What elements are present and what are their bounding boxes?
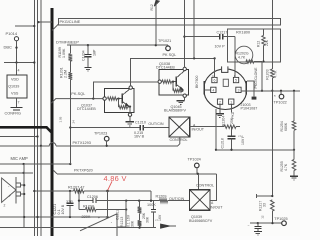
connector J1003 left chord bbox=[203, 81, 205, 95]
wire tp1023 stem bbox=[106, 141, 108, 146]
arrow R12 head bbox=[154, 0, 159, 6]
wire riser x139 t bbox=[139, 201, 141, 207]
capacitor C1204 plate1 bbox=[84, 54, 91, 56]
junction q1037 emitter bbox=[129, 105, 131, 107]
wire pk-sql tap bbox=[51, 99, 103, 104]
wire x70 down bbox=[69, 80, 71, 165]
junction dtmf c1204 bbox=[87, 44, 89, 46]
capacitor C1212 lead dn bbox=[152, 212, 154, 228]
svg-text:16V: 16V bbox=[158, 214, 162, 221]
ground Q1037 bar2 bbox=[128, 123, 133, 125]
wire pk sql net bbox=[131, 58, 215, 86]
ground C1204 bar2 bbox=[86, 68, 90, 70]
pad P1014 bbox=[14, 37, 18, 41]
transistor Q1038 emitter bbox=[176, 85, 183, 90]
wire sw2 inout bbox=[210, 174, 217, 201]
capacitor C1210 plate2 bbox=[142, 125, 144, 131]
capacitor C1222 lead bbox=[257, 223, 259, 226]
arrow R12 tick bbox=[156, 1, 159, 4]
svg-text:BU4066BCFV: BU4066BCFV bbox=[189, 219, 213, 223]
svg-text:1.09K: 1.09K bbox=[62, 48, 66, 58]
junction out2 bbox=[23, 193, 25, 195]
resistor R1217 bbox=[271, 200, 275, 211]
wire signal y191 bbox=[34, 190, 73, 192]
wire c1217 out bbox=[223, 36, 235, 38]
pin Q1037 base bbox=[103, 97, 106, 100]
svg-text:4.86 V: 4.86 V bbox=[104, 174, 127, 183]
junction c1222 bbox=[257, 222, 259, 224]
junction DBC bbox=[15, 46, 17, 48]
junction rail79 bbox=[78, 190, 80, 192]
wire pin6 stem bbox=[214, 58, 216, 77]
svg-text:18P: 18P bbox=[92, 49, 96, 56]
ground Q1038 bar3 bbox=[180, 103, 181, 105]
wire sw1 control bbox=[178, 137, 180, 146]
junction x151 y200 bbox=[150, 200, 152, 202]
svg-text:PKTX1293: PKTX1293 bbox=[73, 141, 91, 145]
net flag PKG/CLINE box bbox=[59, 18, 281, 25]
testpoint TP1023 bbox=[104, 136, 109, 141]
junction x216 y150 bbox=[215, 149, 217, 151]
ground C1222 bar2 bbox=[256, 232, 260, 234]
junction rail x139 bbox=[138, 226, 140, 228]
junction c1206 x126 bbox=[125, 199, 127, 201]
wire q1038 r2 down bbox=[172, 81, 174, 90]
wire x216 from connector bbox=[215, 109, 217, 150]
wire riser x139 m bbox=[139, 213, 141, 220]
wire r1255 top lead bbox=[293, 150, 295, 160]
wire x272 top bbox=[271, 0, 273, 69]
capacitor C1221 plate1 bbox=[67, 202, 74, 204]
junction pk sql pin6 bbox=[213, 57, 215, 59]
capacitor C1218 plate1 bbox=[227, 135, 235, 137]
svg-text:DTMF/BEEP: DTMF/BEEP bbox=[56, 39, 79, 44]
wire tp1024 stem bbox=[196, 168, 198, 174]
annotation pointer line bbox=[108, 181, 112, 190]
testpoint TP1025 bbox=[282, 221, 287, 226]
wire sw1 out bbox=[190, 126, 224, 128]
svg-text:C1217: C1217 bbox=[217, 31, 228, 35]
svg-text:CONTROL: CONTROL bbox=[170, 138, 188, 142]
wire arrow R12 up bbox=[155, 5, 157, 46]
ground connector bar1 bbox=[216, 113, 224, 115]
svg-text:1: 1 bbox=[230, 100, 232, 104]
capacitor C1204 lead dn bbox=[87, 57, 89, 68]
ground Q1037 bar3 bbox=[129, 125, 130, 127]
wire tp1021 stem bbox=[167, 44, 169, 47]
transistor Q1037 bar bbox=[121, 94, 123, 104]
op-amp U2 triangle bbox=[80, 214, 117, 236]
wire x194 down bbox=[193, 0, 195, 58]
pin Q1038 emitter bbox=[183, 94, 186, 97]
svg-text:4: 4 bbox=[212, 89, 214, 93]
wire r1208 row2 bbox=[96, 209, 126, 211]
wire q1037 emitter down bbox=[129, 107, 131, 113]
analog switch Q1039 X2 bbox=[190, 190, 211, 211]
wire thick harness y127 bbox=[0, 127, 52, 132]
wire q1037 r2 join bbox=[128, 106, 131, 108]
pin pad out2 bbox=[16, 192, 20, 196]
connector pin 6 bbox=[212, 77, 217, 82]
junction c1206 l bbox=[78, 199, 80, 201]
op-amp U1 triangle bbox=[2, 178, 16, 202]
wire pin7 bbox=[16, 98, 18, 107]
resistor R1206 inner bbox=[262, 36, 265, 46]
wire mic2 bbox=[0, 172, 33, 174]
wire c1217 in bbox=[184, 36, 219, 38]
svg-text:4.7K: 4.7K bbox=[274, 70, 278, 78]
capacitor C1212 lead bbox=[152, 201, 154, 210]
connector J1003 right flat erase bbox=[246, 81, 249, 95]
junction x34 y191 bbox=[33, 190, 35, 192]
capacitor C1221 lead up bbox=[69, 191, 71, 203]
junction tp1022 bbox=[280, 90, 282, 92]
capacitor C1222 plate1 bbox=[254, 225, 261, 227]
ferrite bead shield bbox=[252, 97, 257, 100]
arrow net line bbox=[170, 225, 176, 227]
resistor Q1038 R1 bbox=[162, 80, 172, 83]
ground R1255 bar3 bbox=[293, 179, 294, 181]
op-amp U2 input line bbox=[117, 226, 127, 228]
wire node P1014 top bbox=[15, 25, 34, 27]
pin Q1037 collector bbox=[129, 86, 132, 89]
svg-text:~: ~ bbox=[248, 224, 250, 228]
svg-text:3: 3 bbox=[237, 89, 239, 93]
junction r1254 top bbox=[293, 90, 295, 92]
wire vertical V2 x37.5 bbox=[37, 0, 39, 236]
connector pin 5 bbox=[233, 77, 238, 82]
wire pktx1293 bbox=[56, 145, 178, 147]
junction x38 y22 bbox=[37, 21, 39, 23]
wire q1038 base in bbox=[94, 82, 159, 99]
transistor Q1037 collector bbox=[122, 89, 130, 96]
junction y136 bbox=[36, 135, 38, 137]
junction y217 d bbox=[106, 216, 108, 218]
wire pkg clone bbox=[261, 62, 263, 91]
wire r1255 bot lead bbox=[293, 171, 295, 176]
ground R1255 bar2 bbox=[292, 177, 297, 179]
junction q1038 base bbox=[172, 81, 174, 83]
svg-text:2: 2 bbox=[4, 204, 6, 208]
svg-text:CONTROL: CONTROL bbox=[196, 183, 214, 187]
resistor R1209 bbox=[160, 199, 168, 203]
resistor R1213 bbox=[138, 207, 142, 213]
wire y136 bbox=[0, 136, 38, 138]
svg-text:C1204: C1204 bbox=[81, 50, 85, 61]
wire r1254 top lead bbox=[293, 91, 295, 121]
wire vertical V1 x34 bbox=[33, 0, 35, 236]
wire mic1 bbox=[0, 163, 70, 165]
wire pktxp620 tap bbox=[53, 170, 57, 174]
capacitor C1218 plate2 bbox=[227, 138, 235, 140]
ground C1204 bar1 bbox=[84, 66, 91, 68]
svg-text:33: 33 bbox=[262, 203, 266, 207]
svg-text:TP1023: TP1023 bbox=[94, 132, 107, 136]
svg-text:PK-SQL: PK-SQL bbox=[71, 92, 85, 96]
junction r1217 bot bbox=[271, 222, 273, 224]
svg-text:10V B: 10V B bbox=[61, 204, 65, 214]
analog switch Q1039 box bbox=[190, 190, 211, 211]
resistor R1255 bbox=[292, 160, 296, 171]
transistor Q1038 box bbox=[159, 69, 189, 95]
connector pin 3 bbox=[236, 87, 241, 92]
capacitor C1212 plate2 bbox=[151, 211, 156, 213]
wire riser x139 b bbox=[139, 226, 141, 227]
wire y127 in bbox=[70, 127, 140, 129]
transistor Q1037 emitter bbox=[122, 102, 128, 106]
wire thick bus x52 bbox=[51, 8, 54, 236]
transistor Q1037 arrow bbox=[125, 103, 129, 106]
svg-text:TP1024: TP1024 bbox=[188, 158, 201, 162]
connector pin 1 bbox=[229, 99, 234, 104]
wire y217 bbox=[0, 216, 108, 218]
wire pin5 stem bbox=[234, 37, 236, 78]
svg-text:100K: 100K bbox=[147, 203, 156, 207]
connector J1003 keyway notch bbox=[222, 66, 228, 72]
wire r1206 lead2 bbox=[263, 46, 265, 62]
svg-text:R1213: R1213 bbox=[120, 217, 124, 227]
wire y191 mid bbox=[84, 190, 151, 192]
wire y150 bbox=[216, 149, 294, 151]
analog switch Q1039 X1 bbox=[190, 190, 211, 211]
wire vertical V3 x41 bbox=[40, 0, 42, 236]
wire dtmf bbox=[67, 44, 168, 46]
svg-text:4: 4 bbox=[18, 69, 20, 73]
transistor Q1038 collector bbox=[176, 71, 184, 78]
svg-text:RX1800: RX1800 bbox=[236, 29, 251, 34]
junction y217 c bbox=[69, 216, 71, 218]
wire r1199-r1201 bbox=[69, 61, 71, 72]
capacitor C1221 plate2 bbox=[67, 205, 74, 207]
capacitor C1210 plate1 bbox=[139, 125, 141, 131]
junction pkg clone bbox=[261, 90, 263, 92]
resistor R1201 bbox=[68, 72, 72, 79]
capacitor C1222 plate2 bbox=[254, 228, 261, 230]
svg-text:R12: R12 bbox=[150, 4, 154, 10]
svg-text:PK SQL: PK SQL bbox=[163, 53, 177, 57]
wire y62 left bbox=[4, 62, 34, 64]
svg-text:R1204: R1204 bbox=[222, 116, 226, 126]
svg-text:PKG/CLINE: PKG/CLINE bbox=[60, 19, 81, 24]
svg-text:OUT/CIN: OUT/CIN bbox=[169, 197, 184, 201]
wire q1037 base bbox=[117, 98, 122, 100]
wire P1014 down bbox=[16, 41, 18, 63]
svg-text:R1209: R1209 bbox=[156, 195, 167, 199]
capacitor C1206 plate1 bbox=[92, 198, 94, 203]
svg-text:DTC144EB: DTC144EB bbox=[77, 107, 96, 111]
junction V1 y62 bbox=[33, 61, 35, 63]
svg-text:33P: 33P bbox=[66, 200, 73, 204]
wire q1038 em join bbox=[181, 90, 184, 92]
wire pin1 stem bbox=[230, 104, 232, 112]
wire x272 mid bbox=[271, 78, 273, 196]
pin pad out1 bbox=[16, 183, 20, 187]
wire r1209 to switch bbox=[168, 200, 190, 202]
svg-text:C1210: C1210 bbox=[135, 120, 146, 124]
resistor R1204 bbox=[224, 125, 236, 129]
ground R1255 bar1 bbox=[290, 175, 298, 177]
junction r1254 y150 bbox=[293, 149, 295, 151]
svg-text:IN/OUT: IN/OUT bbox=[210, 205, 223, 209]
junction x272 y196 bbox=[271, 195, 273, 197]
junction C1221 top bbox=[69, 190, 71, 192]
ground Q1038 bar1 bbox=[177, 100, 185, 102]
wire q1038 base bbox=[172, 81, 177, 83]
resistor R1254 bbox=[292, 121, 296, 130]
wire y145 mid bbox=[41, 145, 49, 147]
capacitor C1218 lead up bbox=[231, 127, 233, 137]
ground C1204 bar3 bbox=[87, 70, 88, 72]
analog switch Q1045 X2 bbox=[169, 117, 190, 137]
junction mic2 bbox=[22, 172, 24, 174]
junction x139 y200 bbox=[138, 200, 140, 202]
wire q1038 collector up bbox=[183, 0, 185, 67]
svg-text:6: 6 bbox=[213, 79, 215, 83]
resistor Q1038 R2 bbox=[173, 89, 182, 92]
wire rail y228 bbox=[0, 227, 156, 229]
resistor R1202 wiper bbox=[246, 60, 254, 63]
svg-text:24: 24 bbox=[72, 120, 76, 124]
svg-text:R1203: R1203 bbox=[265, 69, 269, 79]
svg-text:P1014: P1014 bbox=[6, 31, 18, 36]
testpoint TP1021 bbox=[166, 46, 171, 51]
capacitor bar2 CONFRG bbox=[13, 109, 20, 111]
wire y196 bbox=[257, 195, 273, 197]
svg-text:TP1021: TP1021 bbox=[158, 39, 171, 43]
junction c1218 y150 bbox=[230, 149, 232, 151]
resistor Q1037 R2 bbox=[119, 106, 128, 109]
wire r1206 lead bbox=[263, 29, 265, 36]
svg-text:P1041087: P1041087 bbox=[241, 107, 258, 111]
ground C1222 bar1 bbox=[254, 230, 262, 232]
capacitor C1204 plate2 bbox=[84, 56, 91, 58]
wire out1 bbox=[20, 184, 24, 186]
svg-text:680K: 680K bbox=[284, 122, 288, 131]
wire r1208 row bbox=[79, 209, 86, 211]
wire pin2 gnd stem bbox=[219, 104, 221, 113]
svg-text:30K: 30K bbox=[131, 220, 135, 227]
capacitor C1212 plate1 bbox=[151, 209, 156, 211]
svg-text:4.7K: 4.7K bbox=[238, 56, 246, 60]
connector J1003 keyway erase bbox=[221, 66, 229, 74]
wire y145 left bbox=[0, 145, 41, 147]
transistor Q1038 bar bbox=[175, 76, 177, 86]
capacitor C1206 plate2 bbox=[95, 198, 97, 203]
testpoint TP1024 bbox=[195, 163, 200, 168]
wire pktxp620 bbox=[57, 173, 217, 175]
net stub bracket bbox=[256, 194, 258, 198]
junction tp1024 bbox=[197, 173, 199, 175]
svg-text:1.05: 1.05 bbox=[59, 116, 63, 122]
junction r1208 x126 bbox=[125, 208, 127, 210]
junction top-left bbox=[33, 25, 35, 27]
junction x70 y127 bbox=[69, 126, 71, 128]
wire tp1025 link bbox=[250, 222, 282, 224]
svg-text:10V P: 10V P bbox=[241, 135, 245, 145]
ground C1222 bar3 bbox=[257, 234, 258, 236]
svg-text:VSS: VSS bbox=[11, 92, 19, 96]
capacitor C1221 lead dn bbox=[69, 206, 71, 217]
testpoint TP1022 bbox=[279, 94, 284, 99]
svg-text:PKTXP620: PKTXP620 bbox=[74, 169, 93, 173]
junction q1037 base bbox=[117, 97, 119, 99]
junction red node bbox=[106, 190, 109, 193]
wire r1254 bot lead bbox=[293, 130, 295, 150]
svg-text:VDD: VDD bbox=[11, 78, 19, 82]
junction pk sql x194 bbox=[193, 57, 195, 59]
wire c1206 row bbox=[79, 200, 93, 202]
svg-text:BK7600: BK7600 bbox=[195, 75, 199, 88]
ground connector bar3 bbox=[219, 116, 220, 118]
svg-text:2: 2 bbox=[219, 100, 221, 104]
wire r1202 to clone bbox=[254, 61, 262, 63]
capacitor C1218 lead dn bbox=[231, 139, 233, 150]
svg-text:TP1025: TP1025 bbox=[274, 217, 287, 221]
wire q1037 emitter gnd bbox=[129, 116, 131, 121]
wire rail left x79 bbox=[78, 191, 80, 210]
analog switch Q1045 X1 bbox=[169, 117, 190, 137]
capacitor C1204 lead bbox=[87, 45, 89, 54]
ground Q1038 bar2 bbox=[178, 102, 183, 104]
wire y22 to bus bbox=[39, 21, 52, 23]
svg-text:DBC: DBC bbox=[4, 44, 13, 49]
wire q1038 emitter gnd bbox=[184, 97, 186, 100]
pin Q1037 emitter bbox=[128, 113, 131, 116]
ic Q1039 box bbox=[7, 75, 27, 98]
wire shield tail bbox=[247, 81, 254, 97]
wire pin4 wire bbox=[204, 89, 210, 91]
junction pk-sql q1038 bbox=[92, 97, 94, 99]
wire hop over bus bbox=[49, 143, 56, 146]
wire q1038 gnd jog bbox=[181, 99, 185, 101]
svg-text:OUT/CIN: OUT/CIN bbox=[148, 122, 163, 126]
junction q1038 emitter bbox=[181, 90, 183, 92]
wire x107 down bbox=[107, 191, 109, 217]
connector J1003 right chord bbox=[245, 81, 247, 95]
svg-text:12: 12 bbox=[261, 215, 265, 219]
wire pin4 bbox=[16, 63, 18, 76]
wire r1199 top bbox=[69, 45, 71, 54]
analog switch Q1045 box bbox=[169, 117, 190, 137]
connector J1003 left flat erase bbox=[202, 81, 205, 95]
junction y145 bbox=[40, 145, 42, 147]
wire pin3 out bbox=[241, 90, 300, 92]
svg-text:10V P: 10V P bbox=[215, 45, 226, 49]
svg-text:MIC AMP: MIC AMP bbox=[11, 156, 29, 161]
junction mic1 b bbox=[69, 163, 71, 165]
svg-text:4.7K: 4.7K bbox=[284, 163, 288, 171]
wire vert x24 bbox=[23, 164, 25, 228]
junction Q1039 supply bbox=[15, 61, 17, 63]
wire c1210 out bbox=[143, 127, 169, 129]
capacitor bar CONFRG bbox=[11, 107, 23, 109]
ground connector bar2 bbox=[218, 115, 223, 117]
junction y217 a bbox=[23, 216, 25, 218]
junction mic1 a bbox=[22, 163, 24, 165]
connector J1003 center slot bbox=[223, 79, 228, 86]
arrow net right bbox=[161, 224, 171, 228]
junction c1217 tap bbox=[183, 35, 185, 37]
svg-text:PKD: PKD bbox=[231, 111, 235, 118]
potentiometer R1202 circle bbox=[235, 46, 253, 64]
resistor R1199 bbox=[68, 54, 72, 62]
resistor R1208 bbox=[86, 208, 97, 212]
svg-text:7: 7 bbox=[18, 101, 20, 105]
wire bus tap to flag bbox=[52, 24, 59, 31]
connector J1003 shell bbox=[204, 69, 247, 110]
capacitor C1222 lead dn bbox=[257, 229, 259, 232]
svg-text:BLA05680FV: BLA05680FV bbox=[164, 108, 186, 112]
